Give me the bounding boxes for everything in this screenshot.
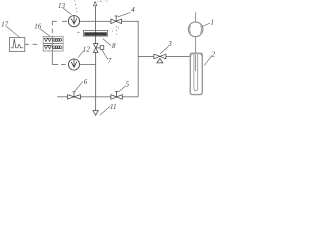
chromatogram trace in box 17 (11, 39, 23, 48)
wire dashed horizontal to circle 12 (52, 63, 65, 65)
wire vertical through box 16 down to corner (51, 36, 53, 64)
inner U tube of vessel 2 (194, 53, 198, 90)
svg-text:2: 2 (212, 51, 215, 59)
dotted marks top edge (97, 0, 108, 1)
furnace rect 8 (84, 30, 108, 36)
leader 8 (103, 39, 111, 46)
svg-text:4: 4 (131, 6, 135, 14)
wire dashed link box 17 to box 16 (25, 43, 37, 45)
pump circle 1 (188, 22, 203, 37)
svg-text:6: 6 (84, 78, 88, 86)
dash left of furnace (77, 31, 79, 33)
wire circle 12 to main vertical (80, 63, 96, 65)
row2 triangles (44, 46, 47, 49)
wire dashed vertical into box 16 (51, 21, 53, 33)
svg-text:13: 13 (58, 2, 66, 10)
flow meter circle 12 (68, 59, 79, 70)
row2 coil (53, 46, 62, 49)
leader 12 (78, 50, 84, 57)
leader 13 (63, 8, 72, 15)
svg-text:17: 17 (1, 20, 9, 28)
row1 triangles (44, 38, 47, 41)
wire top main line y=21.3 from circle 13 to right corner (80, 21, 138, 97)
dotted line below valve 4 (112, 26, 119, 34)
wire main vertical x=95.6 upper part (95, 6, 97, 44)
svg-text:11: 11 (110, 103, 116, 111)
leader 6 (75, 82, 83, 92)
leader 7 (102, 50, 108, 59)
dotted line above circle 13 (74, 1, 77, 13)
wire dashed segment left of circle 13 (52, 20, 67, 22)
leader 11 (100, 107, 110, 116)
svg-text:16: 16 (34, 22, 42, 30)
leader 4 (118, 12, 131, 16)
wire pump to vessel 2 (195, 37, 197, 71)
svg-text:1: 1 (210, 19, 214, 27)
svg-text:5: 5 (125, 80, 129, 88)
svg-text:12: 12 (83, 45, 91, 53)
recorder box 17 (10, 38, 25, 52)
flow meter circle 13 (68, 16, 79, 27)
vent triangle 11 (93, 111, 98, 116)
valve 5 (111, 95, 117, 100)
valve 4 (111, 19, 116, 24)
wire branch to valve 3 and vessel 2 (138, 55, 190, 57)
purifier box 16 row 2 (43, 44, 63, 51)
row1 coil (53, 39, 62, 42)
wire pump inlet above circle 1 (195, 12, 197, 22)
wire main vertical x=95.6 lower part to vent (95, 52, 97, 110)
arrow up outlet on main vertical (93, 2, 97, 6)
valve 6 (68, 95, 74, 100)
svg-text:7: 7 (108, 57, 112, 65)
leader 1 (203, 23, 211, 26)
dash top edge (99, 0, 102, 2)
actuator square of valve 7 (96, 47, 101, 49)
svg-text:3: 3 (167, 40, 172, 48)
valve 3 three-way (154, 54, 160, 59)
wire bottom line y=96 (57, 96, 138, 98)
leader 17 (7, 27, 20, 38)
leader 3 (160, 46, 168, 54)
leader 5 (118, 86, 125, 92)
purifier box 16 row 1 (43, 36, 63, 43)
trap vessel 2 (190, 53, 202, 94)
leader 2 (204, 56, 212, 66)
svg-text:8: 8 (112, 42, 116, 50)
leader 16 (40, 29, 50, 36)
valve 7 hourglass (93, 44, 98, 48)
